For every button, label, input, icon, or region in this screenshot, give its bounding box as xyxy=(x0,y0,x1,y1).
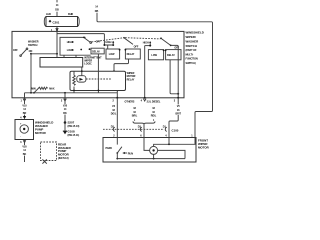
svg-text:BR/T: BR/T xyxy=(175,112,181,115)
node: relay output exit xyxy=(116,97,118,99)
svg-text:DELAY: DELAY xyxy=(92,50,100,53)
svg-text:MAX: MAX xyxy=(49,87,55,90)
svg-text:RD/L: RD/L xyxy=(151,114,157,117)
svg-text:V20: V20 xyxy=(63,105,68,108)
wire feed B+ to front wiper motor pin 1 xyxy=(95,6,213,138)
wire washer switch feed xyxy=(31,31,58,57)
svg-text:C201: C201 xyxy=(53,20,60,24)
svg-text:BR: BR xyxy=(23,112,27,115)
svg-text:2.5L DIESEL: 2.5L DIESEL xyxy=(147,101,161,104)
connector C100 dashed line xyxy=(103,128,179,132)
wire delay section 1 box down to bus xyxy=(98,54,100,93)
svg-text:WIPER/: WIPER/ xyxy=(186,35,196,39)
exit column C100 center xyxy=(125,99,161,138)
svg-text:LHD: LHD xyxy=(46,13,51,16)
wiper switch section 3 xyxy=(143,37,181,59)
connector C201 xyxy=(44,13,79,27)
svg-text:FUNCTION: FUNCTION xyxy=(186,58,198,61)
wire feed to off contact section 1 xyxy=(57,34,114,49)
svg-text:DELAY: DELAY xyxy=(127,53,135,56)
windshield wiper washer switch box xyxy=(12,31,184,97)
washer pump exit pin 1 xyxy=(20,98,28,116)
svg-text:RELAY: RELAY xyxy=(127,79,135,82)
svg-text:BR/L: BR/L xyxy=(132,114,138,117)
variable delay resistor MIN/MAX xyxy=(31,87,55,94)
svg-text:MOTOR: MOTOR xyxy=(35,131,47,135)
pin A windshield washer pump xyxy=(20,116,26,120)
svg-text:LOW: LOW xyxy=(151,54,157,57)
ground wire exit pin 2 xyxy=(61,98,69,123)
svg-text:RUN: RUN xyxy=(128,153,133,156)
svg-text:SWITCH: SWITCH xyxy=(28,44,38,47)
wiper switch section 1 xyxy=(60,37,104,58)
svg-text:V10: V10 xyxy=(22,105,27,108)
wire section 2 delay to relay contact xyxy=(113,59,129,98)
washer pump ground wire xyxy=(20,140,28,163)
wire washer output down xyxy=(30,54,32,93)
front wiper motor box xyxy=(103,138,210,163)
wire feed from fuse to C201 xyxy=(55,0,59,17)
ground G108 xyxy=(63,123,80,137)
wire section 3 high contact down to C100 exit xyxy=(144,46,146,99)
label: windshield wiper washer switch xyxy=(186,31,204,65)
svg-text:SWITCH): SWITCH) xyxy=(186,62,196,65)
svg-text:MULTI-: MULTI- xyxy=(186,53,194,56)
windshield washer pump motor xyxy=(15,120,53,140)
wire section 3 off down xyxy=(170,45,179,99)
svg-text:BK: BK xyxy=(63,112,67,115)
svg-text:SWITCH: SWITCH xyxy=(186,44,197,48)
relay wiper motor relay box xyxy=(70,71,126,90)
node: junction C201 wire on switch box xyxy=(56,30,58,32)
svg-text:C100: C100 xyxy=(172,128,179,132)
pin A below C201 xyxy=(51,27,59,32)
relay coil xyxy=(73,71,75,93)
svg-text:LOGIC: LOGIC xyxy=(84,62,92,65)
svg-text:DELAY: DELAY xyxy=(167,54,175,57)
svg-text:OFF: OFF xyxy=(134,46,139,49)
svg-text:WINDSHIELD: WINDSHIELD xyxy=(186,31,204,35)
wire section 3 delay contact down to off wire xyxy=(170,60,179,95)
svg-text:(8W-53-3): (8W-53-3) xyxy=(58,157,69,160)
svg-text:HIGH: HIGH xyxy=(143,41,149,44)
svg-text:DB: DB xyxy=(95,10,99,13)
svg-text:(PART OF: (PART OF xyxy=(186,49,197,52)
svg-text:MOTOR: MOTOR xyxy=(198,146,210,150)
svg-text:LOW: LOW xyxy=(109,53,115,56)
svg-text:MOTOR: MOTOR xyxy=(58,153,70,157)
svg-text:WASHER: WASHER xyxy=(186,39,200,43)
exit column C100 right xyxy=(163,98,182,138)
relay actuation dashed link xyxy=(86,78,111,80)
svg-text:ON: ON xyxy=(29,50,33,53)
svg-text:BK: BK xyxy=(23,153,27,156)
svg-text:OFF: OFF xyxy=(13,49,18,52)
svg-text:OFF: OFF xyxy=(174,46,179,49)
svg-text:PARK: PARK xyxy=(106,147,113,150)
splice S207 xyxy=(64,121,80,128)
svg-text:RHD: RHD xyxy=(68,13,73,16)
wiper switch section 2 xyxy=(106,37,141,59)
svg-text:(8W-15-11): (8W-15-11) xyxy=(68,134,80,137)
rear washer pump motor (dashed) xyxy=(41,142,72,164)
svg-text:OTHERS: OTHERS xyxy=(125,101,135,104)
svg-text:MIN: MIN xyxy=(31,87,36,90)
intermittent wiper logic box xyxy=(40,57,102,68)
svg-text:DB: DB xyxy=(55,9,59,12)
washer switch xyxy=(13,41,39,57)
relay armature xyxy=(77,67,86,82)
svg-text:V20: V20 xyxy=(22,146,27,149)
svg-text:DG/L: DG/L xyxy=(111,112,117,115)
svg-text:HIGH: HIGH xyxy=(106,41,112,44)
svg-text:(8W-15-10): (8W-15-10) xyxy=(68,125,80,128)
exit column C100 pin 2 xyxy=(111,98,118,138)
internal ground bus xyxy=(25,92,118,98)
front wiper motor internals xyxy=(106,138,196,160)
label wiper motor relay xyxy=(127,72,136,82)
dashed gang line wiper switch xyxy=(92,38,161,42)
